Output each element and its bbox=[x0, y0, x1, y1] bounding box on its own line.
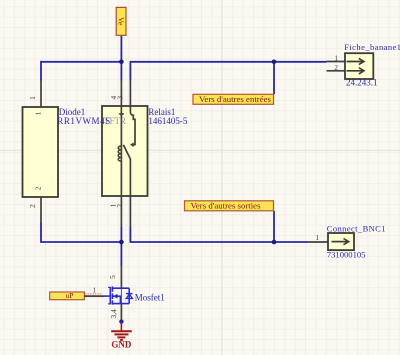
channel bar segments bbox=[111, 286, 113, 304]
gate bar end ticks bbox=[108, 287, 110, 304]
drain rail bbox=[112, 287, 129, 289]
relay coil arcs bbox=[118, 146, 121, 161]
connector Fiche_banane1 pin 1 bbox=[327, 61, 346, 63]
mosfet Q1 symbol bbox=[104, 286, 133, 304]
dashed autojunction line bbox=[85, 293, 102, 295]
svg-text:3,4: 3,4 bbox=[109, 309, 118, 319]
port uP bbox=[50, 291, 85, 300]
mosfet source pin bbox=[120, 304, 122, 321]
mosfet pin through-line bbox=[120, 288, 122, 304]
mosfet gate pin bbox=[84, 295, 104, 297]
diode D1 body (Diode1) bbox=[23, 107, 59, 197]
svg-text:24.243.1: 24.243.1 bbox=[346, 78, 378, 88]
connector Connect_BNC1 pin 1 bbox=[308, 241, 328, 243]
svg-text:1461405-5: 1461405-5 bbox=[148, 116, 187, 126]
svg-text:3: 3 bbox=[116, 95, 125, 99]
svg-text:1: 1 bbox=[315, 234, 319, 242]
connector Connect_BNC1 body bbox=[328, 233, 354, 250]
ground GND bbox=[111, 322, 132, 340]
svg-text:2: 2 bbox=[33, 186, 42, 190]
wire entrees port riser bbox=[273, 62, 275, 95]
power port Ve bbox=[116, 7, 126, 35]
relay body (Relais1) bbox=[102, 106, 148, 196]
junction top-right bbox=[272, 60, 277, 65]
connector Fiche_banane1 pin 2 bbox=[327, 70, 346, 72]
diode D1 pin 1 bbox=[40, 81, 42, 108]
wire relay pin2 corner to BNC bbox=[130, 227, 308, 242]
source rail bbox=[112, 303, 129, 305]
port Vers d'autres entrees bbox=[193, 94, 274, 104]
BNC arrow bbox=[332, 241, 348, 243]
fiche arrow 1 bbox=[347, 61, 364, 63]
svg-text:Connect_BNC1: Connect_BNC1 bbox=[327, 223, 386, 233]
wire relay pin4 drop bbox=[120, 62, 122, 81]
junction at GND bbox=[119, 319, 123, 323]
svg-text:GND: GND bbox=[111, 340, 132, 350]
junction top-left bbox=[119, 60, 124, 65]
wire top-left bus bbox=[41, 61, 121, 63]
major grid line vertical bbox=[221, 0, 223, 355]
body diode triangle bbox=[126, 294, 132, 299]
relay coil arrowhead on pin4 bbox=[119, 114, 124, 117]
body diode branch bbox=[128, 288, 130, 303]
gate bar bbox=[109, 287, 111, 304]
svg-text:5: 5 bbox=[108, 275, 117, 279]
body diode cathode bar bbox=[126, 293, 133, 295]
relay switch blade bbox=[123, 145, 130, 227]
gate lead blue bbox=[104, 295, 110, 297]
relay pin 4 (top-left) bbox=[120, 81, 122, 228]
junction bottom-left bbox=[119, 240, 124, 245]
substrate link bbox=[113, 296, 120, 303]
port Vers d'autres sorties bbox=[185, 201, 274, 211]
svg-text:2: 2 bbox=[28, 204, 37, 208]
wire top-right bus bbox=[130, 62, 326, 81]
relay pin 3 contact line bbox=[130, 81, 135, 145]
connector Fiche_banane1 body bbox=[345, 53, 373, 79]
svg-text:Vers d'autres sorties: Vers d'autres sorties bbox=[191, 201, 262, 211]
wire sorties port riser bbox=[273, 211, 275, 242]
svg-text:Ve: Ve bbox=[117, 17, 126, 26]
svg-text:1: 1 bbox=[33, 111, 42, 115]
svg-text:RR1VWM4S: RR1VWM4S bbox=[57, 116, 110, 126]
wire left drop to diode bbox=[40, 61, 42, 81]
svg-text:uP: uP bbox=[65, 291, 73, 300]
svg-text:2: 2 bbox=[115, 204, 124, 208]
svg-text:731000105: 731000105 bbox=[327, 249, 366, 259]
diode D1 pin 2 bbox=[40, 197, 42, 223]
relay contact arrowhead bbox=[130, 142, 134, 147]
wire bottom-left bus bbox=[41, 223, 121, 242]
svg-text:2: 2 bbox=[334, 64, 338, 72]
svg-text:Mosfet1: Mosfet1 bbox=[135, 293, 165, 303]
wire relay pin1 to mosfet bbox=[120, 227, 122, 266]
substrate arrow bbox=[113, 294, 118, 299]
major grid line horizontal bbox=[0, 149, 400, 151]
svg-text:1: 1 bbox=[334, 55, 338, 63]
mosfet drain pin bbox=[120, 266, 122, 288]
svg-text:Vers d'autres entrées: Vers d'autres entrées bbox=[199, 94, 272, 104]
svg-text:Fiche_banane1: Fiche_banane1 bbox=[344, 42, 400, 52]
wire Ve drop bbox=[120, 35, 122, 62]
svg-text:1: 1 bbox=[28, 96, 37, 100]
svg-text:1: 1 bbox=[93, 286, 97, 294]
junction bottom-right bbox=[272, 240, 277, 245]
fiche arrow 2 bbox=[347, 70, 364, 72]
